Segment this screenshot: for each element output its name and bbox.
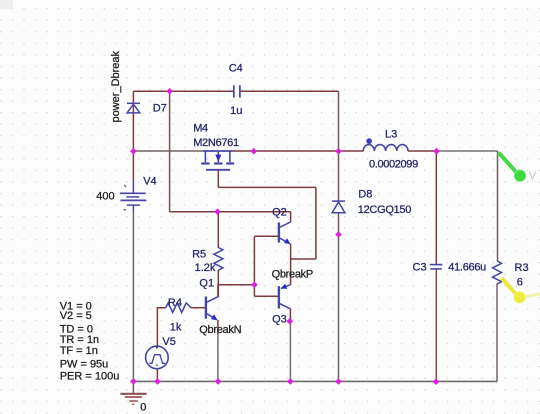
svg-text:12CGQ150: 12CGQ150 bbox=[358, 204, 411, 216]
wire riser corner to R5 junction bbox=[170, 211, 218, 213]
svg-text:M2N6761: M2N6761 bbox=[193, 137, 239, 149]
wire Q2 base horizontal bbox=[254, 235, 279, 237]
mosfet M4 bbox=[201, 151, 234, 170]
junction below D8 bbox=[335, 231, 342, 238]
wire Q2 collector vertical bbox=[290, 212, 292, 222]
junction bottom rail D8 bbox=[335, 378, 342, 385]
wire Q2 collector horizontal bbox=[218, 211, 291, 213]
svg-text:V4: V4 bbox=[143, 175, 156, 187]
wire riser from top wire through rail bbox=[169, 91, 171, 211]
wire Q3 collector down to junction bbox=[289, 309, 291, 321]
resistor R4 bbox=[166, 303, 191, 313]
junction node A bbox=[251, 282, 258, 289]
wire R5 bottom lead to Q1 collector bbox=[217, 270, 219, 297]
wire gate loop horizontal bbox=[218, 186, 316, 188]
svg-text:1k: 1k bbox=[170, 321, 182, 333]
svg-text:0: 0 bbox=[140, 401, 146, 413]
svg-text:R4: R4 bbox=[168, 297, 182, 309]
svg-text:V5: V5 bbox=[162, 336, 175, 348]
source V5 circle bbox=[146, 346, 169, 369]
probe yellow marker bbox=[502, 278, 540, 303]
svg-text:1.2k: 1.2k bbox=[195, 262, 216, 274]
svg-text:PW = 95u: PW = 95u bbox=[60, 358, 109, 370]
wire right branch above R3 bbox=[497, 151, 499, 261]
junction rail D7 V4 bbox=[130, 148, 137, 155]
capacitor C3 bbox=[430, 265, 443, 269]
wire top horizontal left of C4 bbox=[133, 90, 233, 92]
wire Q1 collector to node A horizontal bbox=[218, 284, 254, 286]
source V4 minus tick bbox=[123, 209, 126, 211]
junction rail right of M4 bbox=[251, 148, 258, 155]
svg-text:400: 400 bbox=[96, 191, 114, 203]
wire D8 branch below diode to junction bbox=[338, 213, 340, 235]
svg-text:Q3: Q3 bbox=[272, 314, 287, 326]
wire M4 gate lead down bbox=[217, 170, 219, 188]
junction R5 top bbox=[214, 208, 221, 215]
wire right branch below R3 bbox=[496, 284, 498, 382]
junction rail C3 bbox=[433, 148, 440, 155]
wire R4 left lead and corner down to V5 bbox=[157, 308, 165, 347]
junction bottom rail V4 bbox=[130, 378, 137, 385]
inductor L3 pin 1 marker bbox=[366, 138, 372, 144]
inductor L3 bbox=[363, 145, 408, 151]
wire Q1 collector vertical bbox=[217, 285, 219, 297]
svg-text:6: 6 bbox=[517, 276, 523, 288]
wire R4 right lead to Q1 base bbox=[191, 307, 206, 309]
mosfet M4 arrow bbox=[215, 155, 221, 162]
junction Q3 collector bbox=[287, 318, 294, 325]
svg-text:1u: 1u bbox=[230, 105, 242, 117]
transistor Q1 bbox=[206, 297, 218, 320]
svg-text:D8: D8 bbox=[358, 189, 372, 201]
transistor Q2 bbox=[279, 222, 291, 244]
source V4 battery bbox=[120, 193, 147, 205]
svg-text:41.666u: 41.666u bbox=[448, 262, 486, 274]
wire V4 bottom pin blue bbox=[132, 206, 134, 212]
resistor R3 bbox=[493, 261, 502, 284]
wire V4 branch down to bottom rail bbox=[132, 211, 134, 381]
svg-text:Q1: Q1 bbox=[199, 278, 214, 290]
svg-text:0.0002099: 0.0002099 bbox=[369, 159, 418, 171]
wire right vertical from C4 corner down to rail bbox=[338, 91, 340, 151]
junction bottom rail C3 bbox=[433, 378, 440, 385]
svg-text:Q2: Q2 bbox=[272, 207, 287, 219]
capacitor C4 bbox=[234, 85, 240, 97]
wire Q3 collector junction to rail bbox=[289, 321, 291, 381]
wire main rail left segment bbox=[133, 150, 203, 152]
transistor Q1 arrow bbox=[211, 314, 218, 320]
junction rail D8 bbox=[335, 148, 342, 155]
wire gate loop right vertical bbox=[315, 187, 317, 259]
source V5 pulse waveform bbox=[149, 355, 165, 364]
junction bottom rail V5 bbox=[154, 378, 161, 385]
wire V4 top lead bbox=[132, 151, 134, 181]
transistor Q3 bbox=[279, 285, 291, 309]
svg-text:V: V bbox=[529, 170, 537, 182]
wire top-left vertical D7 branch bbox=[132, 91, 134, 151]
wire D8 branch junction to bottom rail bbox=[338, 235, 340, 382]
ground symbol bbox=[120, 394, 146, 405]
junction bottom rail Q3 bbox=[287, 378, 294, 385]
resistor R5 bbox=[214, 248, 223, 271]
wire bottom rail bbox=[133, 380, 497, 382]
junction bottom rail Q1 bbox=[215, 378, 222, 385]
svg-text:R5: R5 bbox=[192, 249, 206, 261]
transistor Q3 arrow bbox=[281, 284, 288, 289]
wire Q1 emitter down gray part bbox=[217, 334, 219, 381]
wire main rail right of inductor bbox=[408, 150, 437, 152]
transistor Q2 arrow bbox=[284, 238, 291, 244]
svg-text:C3: C3 bbox=[413, 261, 427, 273]
source V5 plus tick bbox=[156, 346, 158, 348]
probe green marker bbox=[499, 153, 537, 182]
wire main rail far right gray segment bbox=[437, 150, 498, 152]
diode D7 bbox=[127, 103, 140, 113]
svg-text:PER = 100u: PER = 100u bbox=[60, 370, 120, 382]
wire Q3 emitter vertical bbox=[290, 259, 292, 285]
source V5 minus tick bbox=[156, 364, 158, 366]
wire D8 branch above diode bbox=[338, 151, 340, 201]
wire Q2 emitter vertical to node bbox=[290, 244, 292, 259]
wire main rail middle segment bbox=[233, 150, 364, 152]
diode D8 bbox=[332, 201, 345, 213]
wire R5 top lead bbox=[217, 212, 219, 248]
wire Q1 emitter down red part bbox=[217, 320, 219, 334]
wire top horizontal right of C4 bbox=[240, 90, 339, 92]
svg-text:TF = 1n: TF = 1n bbox=[60, 345, 98, 357]
source V4 plus tick bbox=[124, 185, 126, 187]
svg-text:D7: D7 bbox=[153, 102, 167, 114]
svg-text:power_Dbreak: power_Dbreak bbox=[110, 50, 122, 122]
svg-text:M4: M4 bbox=[193, 123, 208, 135]
svg-text:V2 = 5: V2 = 5 bbox=[60, 310, 92, 322]
svg-text:R3: R3 bbox=[515, 262, 529, 274]
wire ground stem bbox=[132, 381, 134, 393]
wire Q3 base horizontal bbox=[254, 295, 279, 297]
junction top wire riser bbox=[166, 88, 173, 95]
svg-text:QbreakP: QbreakP bbox=[272, 269, 313, 281]
svg-text:QbreakN: QbreakN bbox=[199, 324, 241, 336]
wire C3 bottom lead bbox=[435, 270, 437, 382]
wire V5 bottom lead bbox=[156, 369, 158, 382]
wire gate loop bottom to emitters bbox=[291, 258, 316, 260]
svg-text:C4: C4 bbox=[229, 63, 243, 75]
wire node A vertical bbox=[253, 236, 255, 296]
wire V4 top pin blue bbox=[132, 181, 134, 193]
svg-text:L3: L3 bbox=[385, 128, 397, 140]
wire C3 top lead bbox=[435, 151, 437, 264]
